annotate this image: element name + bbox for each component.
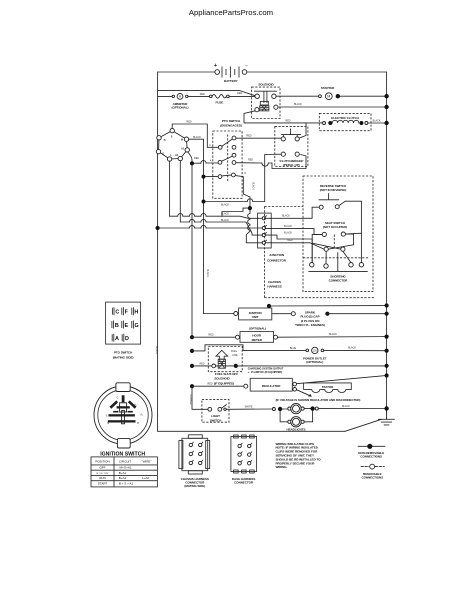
svg-text:B+A1: B+A1 <box>119 471 127 475</box>
svg-text:BLACK: BLACK <box>329 333 337 336</box>
solenoid K1 <box>252 83 280 119</box>
wire: junction pin2 to seat switch top left, label BLACK <box>265 229 322 235</box>
wire: PTO B out down (black) <box>235 176 250 197</box>
svg-text:ELECTRIC CLUTCH: ELECTRIC CLUTCH <box>331 116 358 120</box>
svg-text:PTO SWITCH: PTO SWITCH <box>114 351 132 355</box>
light switch S6 <box>202 400 229 423</box>
svg-text:METER: METER <box>252 338 263 342</box>
fuse F1 <box>210 95 230 105</box>
svg-text:(DISENGAGED): (DISENGAGED) <box>220 124 242 128</box>
wire: diagonal to engine ground <box>345 419 382 431</box>
wire: key L down <box>169 161 171 216</box>
wire: PTO B squiggle down to junction pin 4 <box>246 197 262 243</box>
svg-text:(NOT IN REVERSE): (NOT IN REVERSE) <box>320 188 347 192</box>
wiring note text <box>276 442 322 469</box>
svg-text:D: D <box>244 172 246 175</box>
svg-text:−: − <box>245 65 248 70</box>
svg-text:RED: RED <box>194 157 199 160</box>
svg-text:WHITE: WHITE <box>245 406 253 409</box>
wire: clutch to ground bus, label BLACK <box>368 122 387 124</box>
svg-text:(NOT OCCUPIED): (NOT OCCUPIED) <box>323 225 347 229</box>
stator G1 <box>304 383 352 393</box>
wire: light switch to headlights, label WHITE <box>226 408 272 410</box>
PTO switch S2 (disengaged) <box>209 119 242 198</box>
wire: battery top row <box>158 71 387 73</box>
chassis harness connector J5 (mating side) <box>179 435 210 488</box>
svg-text:L+A2: L+A2 <box>142 476 149 480</box>
wire: ammeter row <box>158 95 255 97</box>
seat switch S5 (not occupied) <box>312 221 353 264</box>
svg-text:POSITION: POSITION <box>95 459 109 463</box>
svg-text:FUEL SHUT-OFF: FUEL SHUT-OFF <box>215 372 238 376</box>
hour meter M2 (optional) <box>190 335 194 339</box>
svg-text:START: START <box>98 481 108 485</box>
dash harness connector J6 <box>231 435 257 484</box>
svg-text:H: H <box>134 310 138 316</box>
svg-text:REGULATOR: REGULATOR <box>262 384 281 388</box>
svg-text:RED: RED <box>285 119 290 122</box>
svg-text:CONNECTOR: CONNECTOR <box>267 258 287 262</box>
svg-text:G: G <box>134 323 138 329</box>
svg-text:12V: 12V <box>313 349 318 352</box>
ground (engine ground symbol) <box>378 409 395 425</box>
svg-text:(OPTIONAL): (OPTIONAL) <box>306 360 323 364</box>
svg-text:(PEDAL UP): (PEDAL UP) <box>283 163 300 167</box>
svg-text:RED: RED <box>207 383 212 386</box>
wire: A1 row to PTO switch A <box>194 162 218 164</box>
ammeter A1 (optional) <box>172 94 189 110</box>
ignition unit U1 <box>204 313 234 315</box>
svg-text:WIRING.: WIRING. <box>276 465 288 469</box>
leader arrow to stator note <box>297 390 312 397</box>
svg-text:BLACK: BLACK <box>348 347 356 350</box>
svg-text:E: E <box>124 323 128 329</box>
svg-text:C: C <box>209 144 211 147</box>
svg-text:RED: RED <box>287 239 292 242</box>
svg-text:BLACK: BLACK <box>252 182 255 190</box>
svg-text:BLACK: BLACK <box>282 215 290 218</box>
wire: vertical to light switch, label ORANGE <box>192 386 208 409</box>
svg-text:+- 15 AMP DC (IF EQUIPPED): +- 15 AMP DC (IF EQUIPPED) <box>248 371 283 374</box>
svg-text:(MATING SIDE): (MATING SIDE) <box>113 356 134 360</box>
wire: ignition unit kill wire to ground bus <box>268 306 270 308</box>
svg-text:BLACK: BLACK <box>221 219 229 222</box>
svg-text:BLACK: BLACK <box>155 346 158 354</box>
svg-text:OFF: OFF <box>100 466 106 470</box>
svg-text:UNIT: UNIT <box>252 315 259 319</box>
wire: right vertical bus (ground bus) <box>386 72 388 419</box>
svg-text:RED: RED <box>199 362 204 365</box>
svg-text:RED: RED <box>186 121 191 124</box>
seat/reverse area dashed box <box>303 176 373 292</box>
svg-text:RED: RED <box>246 135 251 138</box>
wire: battery loop to solenoid <box>158 90 256 95</box>
svg-text:BLACK: BLACK <box>206 269 209 277</box>
svg-text:G: G <box>162 153 164 156</box>
svg-text:R.O.S. “ON”: R.O.S. “ON” <box>97 473 109 475</box>
svg-text:RUN: RUN <box>99 476 106 480</box>
svg-text:FUSE: FUSE <box>215 100 223 104</box>
svg-text:BLACK: BLACK <box>342 405 350 408</box>
svg-text:TWIN CYL. ENGINES): TWIN CYL. ENGINES) <box>295 323 325 327</box>
clutch/brake switch S3 (pedal up) <box>275 126 308 167</box>
wire: junction pin1 to reverse switch, label BLACK <box>265 207 319 218</box>
svg-text:PTO SWITCH: PTO SWITCH <box>222 119 240 123</box>
wire: bottom ground run <box>158 430 345 432</box>
svg-text:“WIRE”: “WIRE” <box>142 459 152 463</box>
wire: solenoid coil S-circuit run <box>244 111 323 123</box>
wire: key A1 to distribution vertical <box>188 152 192 337</box>
electric clutch L1 <box>319 113 371 130</box>
svg-text:M+G+A1: M+G+A1 <box>119 466 131 470</box>
wire: M-circuit row through clutch/brake lower left <box>202 200 206 204</box>
legend: removable connection symbol <box>361 464 384 479</box>
svg-text:STATOR: STATOR <box>322 385 334 389</box>
svg-text:(IF EQUIPPED): (IF EQUIPPED) <box>214 382 234 386</box>
wire: PTO A out to clutch/brake lower right <box>236 155 306 169</box>
svg-text:LINE: LINE <box>232 354 238 357</box>
svg-text:B+A1: B+A1 <box>119 476 127 480</box>
svg-text:G: G <box>116 396 118 399</box>
svg-text:HARNESS: HARNESS <box>267 284 281 288</box>
svg-text:M: M <box>327 95 330 99</box>
legend: non-removable connection symbol <box>358 444 385 459</box>
wire: PTO B feed dot <box>202 175 206 179</box>
svg-text:BLACK: BLACK <box>373 119 381 122</box>
ignition switch position table <box>91 457 157 487</box>
PTO switch mating-side connector J4 <box>106 302 141 360</box>
svg-text:D: D <box>125 336 129 342</box>
wire: solenoid coil to ground bus, label BLACK <box>278 106 387 108</box>
svg-text:B + S + A1: B + S + A1 <box>119 481 134 485</box>
reverse switch S4 (not in reverse) <box>319 184 346 209</box>
wire: L-circuit row to junction pin 1 <box>170 216 262 218</box>
regulator U2 <box>190 384 194 388</box>
wire: A2-circuit row to junction pin 3 <box>180 222 262 235</box>
svg-text:SWITCH: SWITCH <box>210 419 222 423</box>
svg-text:BLACK: BLACK <box>193 136 201 139</box>
svg-text:SOLENOID: SOLENOID <box>258 83 274 87</box>
svg-text:HEADLIGHTS: HEADLIGHTS <box>286 428 305 432</box>
svg-text:BLACK: BLACK <box>294 103 302 106</box>
svg-text:BLUE: BLUE <box>290 347 297 350</box>
wire: solenoid to starter <box>276 95 318 97</box>
svg-text:STARTER: STARTER <box>321 86 335 90</box>
svg-text:A₂: A₂ <box>140 413 143 416</box>
svg-text:CONNECTIONS: CONNECTIONS <box>360 454 382 458</box>
svg-text:BLACK: BLACK <box>284 225 292 228</box>
fuel shut-off solenoid L2 (if equipped) <box>190 364 194 368</box>
ignition key switch S1 (schematic circle) <box>156 128 189 161</box>
wire: starter to ground bus <box>340 95 387 97</box>
svg-text:B: B <box>115 323 119 329</box>
ignition switch rear-view drawing <box>94 383 152 448</box>
wire: junction pin3 to shorting connector, label BLACK <box>265 235 312 263</box>
wire: G-circuit ground row to junction pin 2 <box>156 226 160 230</box>
wire: key M terminal black run <box>189 139 204 313</box>
wire: branch to clutch/brake upper contact <box>299 123 306 138</box>
svg-text:CONNECTIONS: CONNECTIONS <box>361 475 383 479</box>
svg-text:A₁: A₁ <box>134 404 137 407</box>
svg-text:SOLENOID: SOLENOID <box>214 377 230 381</box>
svg-text:C: C <box>115 310 119 316</box>
starter motor M1 <box>319 86 340 99</box>
chassis harness boundary (dashed) <box>265 207 376 298</box>
wire: stub from junction dot to L row <box>222 208 250 216</box>
svg-text:CIRCUIT: CIRCUIT <box>119 459 131 463</box>
svg-text:RED: RED <box>248 158 253 161</box>
svg-text:BLACK: BLACK <box>284 231 292 234</box>
shorting connector J2 <box>303 253 368 283</box>
wire: regulator to ground bus <box>297 376 387 384</box>
wire: left vertical bus (battery negative / black run) <box>157 72 159 431</box>
svg-text:CONNECTOR: CONNECTOR <box>329 279 349 283</box>
svg-text:CONNECTOR: CONNECTOR <box>234 480 254 484</box>
svg-text:(IF VOLTAGE IS SHOWN REGULATOR: (IF VOLTAGE IS SHOWN REGULATOR AND DISCO… <box>276 398 361 402</box>
svg-text:AppliancePartsPros.com: AppliancePartsPros.com <box>189 8 273 17</box>
svg-text:A: A <box>115 336 119 342</box>
battery BATTERY <box>214 63 248 83</box>
svg-text:FUEL: FUEL <box>231 350 238 353</box>
svg-text:(OPTIONAL): (OPTIONAL) <box>249 327 266 331</box>
junction connector J1 <box>258 213 287 262</box>
svg-text:M: M <box>107 422 109 425</box>
wire: junction pin4 to seat switch, label RED <box>265 243 324 249</box>
svg-text:(OPTIONAL): (OPTIONAL) <box>172 106 189 110</box>
svg-text:JUNCTION: JUNCTION <box>269 253 284 257</box>
svg-text:B: B <box>164 139 166 142</box>
headlights E1 E2 <box>272 403 318 431</box>
spark plug gap P1 <box>272 313 292 315</box>
svg-text:RED: RED <box>237 92 242 95</box>
svg-text:RED: RED <box>200 93 205 96</box>
wire: power outlet row (detour over fuel solenoid box) <box>190 349 194 353</box>
svg-text:BLACK: BLACK <box>221 204 229 207</box>
svg-text:LIGHT: LIGHT <box>211 414 220 418</box>
svg-text:(MATING SIDE): (MATING SIDE) <box>184 484 205 488</box>
wire: key S terminal to PTO switch C (red) <box>172 124 218 147</box>
svg-text:RED: RED <box>208 334 213 337</box>
wire: key A2 down <box>179 161 181 222</box>
svg-text:BATTERY: BATTERY <box>224 79 238 83</box>
svg-text:M: M <box>181 139 183 142</box>
svg-text:ORANGE: ORANGE <box>189 394 192 405</box>
wire: reverse switch out to seat switch <box>345 201 361 262</box>
wire: headlights to ground bus, label BLACK <box>318 408 386 410</box>
wire: PTO C out to clutch/brake (red) <box>236 137 281 139</box>
